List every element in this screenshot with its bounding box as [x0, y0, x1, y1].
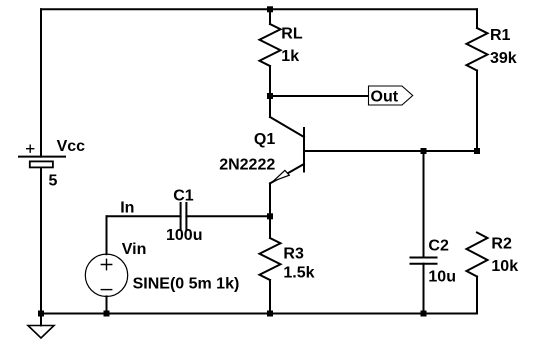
wire emitter lead — [269, 183, 271, 216]
svg-text:R3: R3 — [283, 245, 304, 262]
svg-text:10u: 10u — [428, 269, 456, 286]
svg-text:1.5k: 1.5k — [283, 265, 314, 282]
wire In node vertical — [106, 216, 108, 254]
wire left column lower (Vcc bottom lead) — [40, 167, 42, 313]
svg-text:Vin: Vin — [122, 241, 147, 258]
resistor R2 — [467, 233, 488, 277]
battery Vcc plate rectangle — [30, 161, 53, 167]
transistor Q1 collector diagonal — [270, 117, 304, 137]
out port flag — [369, 86, 413, 105]
capacitor C2 plates — [411, 258, 437, 264]
wire Out branch — [270, 95, 369, 97]
voltage source Vin plus sign — [101, 259, 113, 271]
svg-text:1k: 1k — [281, 48, 299, 65]
wire base rail — [304, 150, 477, 152]
wire RL top lead — [269, 9, 271, 24]
svg-text:Vcc: Vcc — [57, 138, 86, 155]
wire right column R1 bottom lead — [476, 71, 478, 152]
resistor RL — [260, 24, 281, 66]
junction node Out — [267, 93, 273, 99]
svg-text:C2: C2 — [428, 238, 449, 255]
svg-text:2N2222: 2N2222 — [219, 156, 275, 173]
svg-text:RL: RL — [281, 26, 303, 43]
wire In to C1 left plate — [107, 215, 181, 217]
wire C1 right plate to node — [186, 215, 270, 217]
svg-text:100u: 100u — [166, 227, 202, 244]
wire top rail — [41, 8, 477, 10]
wire R3 bottom lead — [269, 280, 271, 314]
junction node C2 top — [421, 148, 427, 154]
battery Vcc top plate — [19, 156, 65, 158]
capacitor C1 plates — [181, 203, 187, 230]
svg-text:5: 5 — [49, 172, 58, 189]
wire bottom rail — [41, 313, 477, 315]
svg-text:SINE(0 5m 1k): SINE(0 5m 1k) — [133, 275, 240, 292]
svg-text:R1: R1 — [490, 27, 511, 44]
svg-text:Q1: Q1 — [254, 131, 275, 148]
svg-text:In: In — [120, 199, 134, 216]
wire R3 top lead — [269, 216, 271, 238]
junction node R3 bottom — [267, 311, 273, 317]
voltage source Vin circle — [85, 254, 127, 296]
wire Vin bottom lead — [106, 296, 108, 313]
resistor R1 — [467, 28, 488, 71]
svg-text:Out: Out — [371, 88, 399, 105]
svg-text:10k: 10k — [491, 258, 518, 275]
junction node C1/R3 — [267, 213, 273, 219]
junction node top RL — [267, 6, 273, 12]
wire C2 bottom lead — [423, 264, 425, 314]
junction node Vin bottom — [104, 311, 110, 317]
wire left column upper (Vcc top lead) — [40, 9, 42, 156]
wire collector lead — [269, 96, 271, 117]
wire C2 top lead — [423, 151, 425, 258]
transistor Q1 emitter arrow — [273, 170, 289, 181]
wire right column R1 top lead — [476, 9, 478, 28]
battery Vcc plus sign — [26, 145, 34, 153]
ground symbol — [28, 326, 54, 339]
junction node C2 bottom — [421, 311, 427, 317]
transistor Q1 emitter diagonal — [270, 164, 304, 183]
resistor R3 — [260, 238, 281, 280]
wire ground stub — [40, 314, 42, 326]
wire right column R2 bottom lead — [476, 277, 478, 314]
junction node ground — [38, 311, 44, 317]
svg-text:C1: C1 — [173, 188, 194, 205]
svg-text:39k: 39k — [490, 50, 517, 67]
junction node base/R1/R2 — [474, 148, 480, 154]
transistor Q1 base bar — [303, 128, 305, 172]
voltage source Vin minus sign — [101, 289, 113, 291]
wire RL bottom lead — [269, 66, 271, 96]
svg-text:R2: R2 — [491, 235, 512, 252]
